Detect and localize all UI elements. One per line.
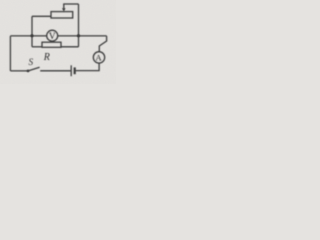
- wire voltmeter branch left: [10, 35, 46, 37]
- switch pivot dot: [27, 70, 30, 73]
- wire ammeter bottom to battery: [76, 63, 100, 71]
- wire right side down to ammeter: [99, 36, 106, 52]
- wire voltmeter branch right: [58, 35, 107, 37]
- battery long plate: [70, 65, 72, 76]
- ammeter A circle: [93, 52, 104, 63]
- svg-text:R: R: [43, 52, 50, 63]
- wire right vertical x=78.5: [78, 4, 80, 47]
- wire switch to left corner: [10, 70, 27, 72]
- svg-text:A: A: [95, 52, 102, 62]
- rheostat slider arrow stem: [63, 4, 65, 9]
- resistor R box: [42, 42, 61, 47]
- wire top from slider to right corner: [63, 3, 78, 5]
- wire battery left to switch: [40, 70, 70, 72]
- slider arrowhead: [62, 8, 65, 12]
- wire R branch right: [61, 46, 79, 48]
- switch lever: [28, 67, 39, 71]
- wire left vertical up: [9, 36, 11, 71]
- junction node right (78.5,36): [77, 34, 80, 37]
- voltmeter V circle: [47, 30, 58, 41]
- rheostat box: [51, 12, 73, 18]
- wire R branch left: [32, 46, 42, 48]
- wire from left vertical to rheostat: [32, 15, 51, 17]
- battery short thick plate: [74, 67, 76, 74]
- paper background: [0, 0, 116, 84]
- svg-text:S: S: [29, 57, 34, 67]
- wire left vertical x=32: [31, 16, 33, 47]
- junction node left (32,36): [31, 34, 34, 37]
- svg-text:V: V: [49, 32, 56, 42]
